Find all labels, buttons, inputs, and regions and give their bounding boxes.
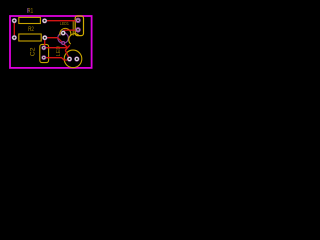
pad R1.2 bbox=[42, 18, 47, 23]
yellow arc Y2 bbox=[69, 34, 79, 44]
pad LED1.2 bbox=[75, 27, 80, 32]
wire T1: R1 left pad to R2 left pad bbox=[13, 21, 15, 37]
wire W1: via diagonal to junction bbox=[63, 43, 67, 47]
resistor R2 body bbox=[19, 34, 41, 41]
pad Q.1 bbox=[67, 56, 72, 61]
pad C2.2 bbox=[41, 55, 46, 60]
LED1 body (vertical rounded rect) bbox=[75, 16, 83, 36]
wire T9: C2 top pad to junction bbox=[45, 47, 67, 49]
wire T3: R2 right pad toward via bbox=[47, 38, 63, 44]
pad R2.1 bbox=[12, 35, 17, 40]
yellow arc Y1 bbox=[60, 28, 71, 35]
pad LED1.1 bbox=[75, 18, 80, 23]
svg-text:LED1: LED1 bbox=[60, 21, 69, 27]
capacitor C2 body bbox=[40, 44, 49, 62]
svg-text:R2: R2 bbox=[28, 27, 34, 33]
wire T2: R1 right pad to LED1 top pad bbox=[47, 20, 77, 22]
via (pad A.2) bbox=[61, 41, 65, 45]
wire T3b: R2 right pad down to C2 top pad bbox=[44, 40, 46, 46]
pad Q.2 bbox=[74, 56, 79, 61]
wire T10: C2 bottom pad to circle C left pad bbox=[46, 58, 68, 60]
pad R2.2 bbox=[42, 35, 47, 40]
svg-text:C2: C2 bbox=[30, 47, 36, 57]
pad A.1 bbox=[61, 30, 66, 35]
background bbox=[0, 0, 100, 78]
cathode bar bbox=[72, 21, 74, 36]
resistor R1 body bbox=[19, 17, 41, 23]
circle A outline (bottom silk, purple) bbox=[58, 33, 69, 44]
wire W2: upper diagonal to junction bbox=[65, 45, 70, 50]
wire T5: LED1 bottom pad to circle A top pad bbox=[63, 30, 77, 32]
wire W3: junction down to circle C left pad bbox=[65, 50, 69, 58]
board outline (Edge.Cuts) bbox=[10, 16, 92, 68]
circle C outline (round component) bbox=[64, 50, 82, 68]
pad C2.1 bbox=[41, 45, 46, 50]
pad R1.1 bbox=[12, 18, 17, 23]
